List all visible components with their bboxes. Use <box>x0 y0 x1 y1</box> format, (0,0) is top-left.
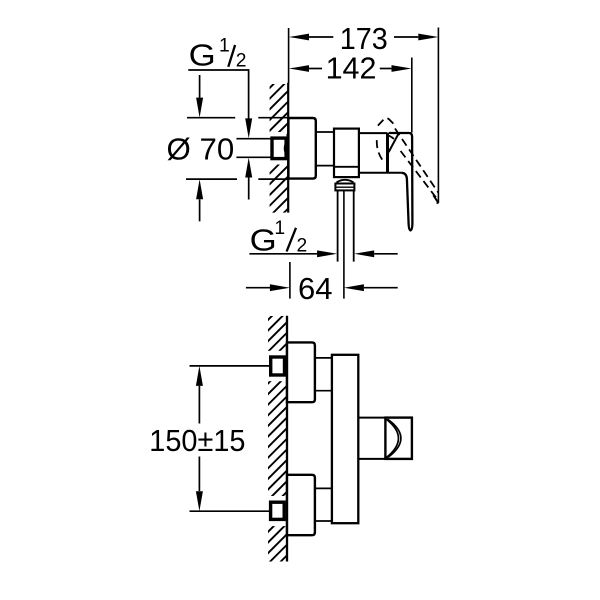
lever alternate position (dashed) <box>377 118 438 198</box>
cartridge section top edge <box>359 132 388 134</box>
wall hatching (top view) <box>251 52 306 278</box>
valve body (top view) <box>334 129 359 178</box>
G1/2 hose right arrow <box>354 250 374 257</box>
svg-text:G: G <box>250 223 277 258</box>
pipe stub (front bottom) <box>271 502 285 519</box>
dimension 64 <box>289 262 291 299</box>
step lines (front top) <box>315 357 332 359</box>
body (front view) <box>332 355 358 523</box>
escutcheon (front bottom) <box>287 475 315 535</box>
lever motion arc <box>386 135 394 139</box>
handle pivot <box>386 133 389 173</box>
handle cap <box>385 418 412 459</box>
wall line (top view) <box>287 83 289 213</box>
cartridge section bottom edge <box>359 172 402 174</box>
wall hatching (front view) <box>250 283 305 600</box>
body divider line <box>334 166 359 168</box>
stub halo (front bottom) <box>266 496 287 526</box>
svg-text:1: 1 <box>274 218 285 239</box>
G1/2 hose leader with arrow <box>249 253 317 255</box>
outlet dome <box>337 180 353 184</box>
supply pipe lines <box>236 138 271 140</box>
stub halo (front top) <box>266 351 287 381</box>
lever face line <box>389 133 399 152</box>
handle neck lines <box>358 417 385 419</box>
svg-text:150±15: 150±15 <box>149 423 245 458</box>
svg-text:64: 64 <box>298 271 333 306</box>
step lines (front bottom) <box>315 487 332 489</box>
G1/2 lower arrow <box>245 158 252 178</box>
pipe stub inner arc <box>285 142 287 155</box>
dimension 173 <box>289 34 309 41</box>
dimension 173 extension line (right) <box>437 28 439 203</box>
dimension 142 <box>289 65 309 72</box>
dimension 173 extension line (left/wall) <box>288 28 290 83</box>
wall line (front view) <box>286 316 288 562</box>
flange escutcheon (top view) <box>288 118 315 179</box>
dimension 150±15 <box>196 366 203 386</box>
shower hose lines <box>337 190 339 261</box>
escutcheon (front top) <box>287 342 315 402</box>
pipe stub (front top) <box>271 357 285 375</box>
dimension Ø70 <box>187 117 235 119</box>
step section lines <box>316 131 334 133</box>
svg-text:142: 142 <box>326 51 377 86</box>
svg-text:1: 1 <box>219 35 230 56</box>
hose nut <box>335 184 354 191</box>
svg-text:Ø 70: Ø 70 <box>167 132 235 167</box>
pipe stub halo (top view) <box>267 132 287 165</box>
dimension 142 extension line (right) <box>411 58 413 133</box>
dashed lever tip <box>433 195 438 203</box>
pipe stub (G1/2 wall connection) <box>272 138 286 159</box>
svg-text:G: G <box>189 38 216 73</box>
G1/2 leader line <box>188 70 248 119</box>
cap arcs <box>386 419 398 457</box>
lever handle (solid) <box>389 133 413 230</box>
svg-text:2: 2 <box>236 51 247 72</box>
dimension 150±15 extension lines <box>190 365 270 367</box>
